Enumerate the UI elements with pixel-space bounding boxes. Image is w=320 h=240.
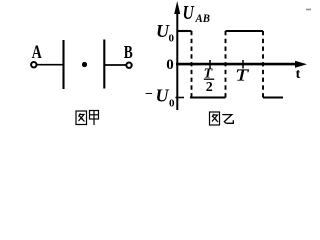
caption 图乙 : char 图 bbox=[210, 112, 220, 125]
tick T/2 bbox=[209, 60, 211, 69]
dashed transition at T/4 bbox=[191, 31, 193, 98]
terminal A bbox=[31, 62, 36, 67]
x axis bbox=[176, 63, 297, 66]
waveform segment -U0 (5T/4 on) bbox=[263, 96, 283, 98]
dashed transition at 3T/4 bbox=[225, 31, 227, 98]
x axis arrowhead bbox=[295, 61, 307, 68]
tick T bbox=[242, 60, 244, 69]
svg-text:0: 0 bbox=[169, 98, 175, 110]
svg-text:AB: AB bbox=[195, 13, 211, 26]
svg-text:T: T bbox=[236, 67, 249, 85]
caption 图乙 : char 乙 bbox=[222, 115, 233, 124]
waveform segment U0 (3T/4 to 5T/4) bbox=[226, 30, 264, 32]
waveform segment U0 (0 to T/4) bbox=[177, 30, 192, 32]
svg-text:U: U bbox=[156, 86, 170, 106]
wire B bbox=[105, 64, 126, 66]
svg-text:A: A bbox=[32, 41, 42, 63]
svg-text:B: B bbox=[124, 43, 133, 62]
y axis bbox=[176, 8, 178, 110]
svg-text:0: 0 bbox=[166, 57, 174, 73]
terminal B bbox=[126, 62, 131, 67]
y axis arrowhead bbox=[174, 1, 180, 14]
waveform segment -U0 (T/4 to 3T/4) bbox=[190, 96, 226, 98]
caption 图甲 : char 图 bbox=[76, 111, 87, 125]
svg-text:U: U bbox=[183, 1, 195, 23]
stray gray dash top right bbox=[306, 9, 311, 11]
wire A bbox=[37, 64, 63, 66]
svg-text:−: − bbox=[145, 87, 153, 102]
dashed transition at 5T/4 bbox=[262, 31, 264, 98]
svg-text:2: 2 bbox=[206, 80, 213, 95]
charged particle dot bbox=[82, 62, 87, 67]
svg-text:t: t bbox=[296, 67, 301, 82]
tick at -U0 on y axis bbox=[176, 97, 185, 99]
left plate bbox=[62, 40, 64, 89]
caption 图甲 : char 甲 bbox=[90, 111, 99, 126]
svg-text:0: 0 bbox=[169, 33, 175, 45]
right plate bbox=[103, 40, 105, 89]
